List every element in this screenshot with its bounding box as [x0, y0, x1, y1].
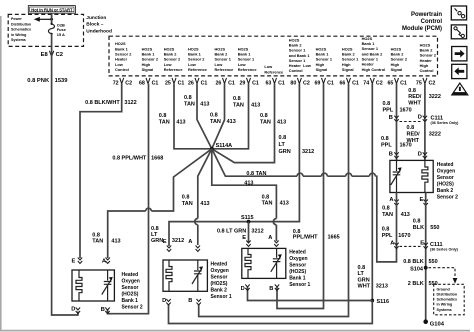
PCM column 8 text [289, 37, 312, 73]
sensor element right [102, 270, 113, 301]
hop over 1668 wire [146, 208, 152, 211]
svg-text:B: B [101, 307, 105, 313]
svg-text:LT: LT [151, 232, 158, 238]
svg-text:0.8: 0.8 [92, 232, 100, 238]
wire TAN S114A to bank1sensor1 A [212, 149, 277, 241]
PCM column 12 text [391, 46, 408, 72]
svg-text:TAN: TAN [92, 239, 103, 245]
svg-text:3212: 3212 [251, 228, 263, 234]
svg-text:C2: C2 [125, 80, 132, 86]
svg-text:3212: 3212 [172, 238, 184, 244]
fuse O2B 15A [48, 22, 66, 37]
heater element left [245, 248, 251, 278]
svg-text:3213: 3213 [376, 284, 388, 290]
wire 0.8 PPL 1666 from pin 66 to middle sensor B [199, 84, 349, 317]
label 0.8 PPL 1670 sensor A lower [382, 227, 411, 240]
pin 66 C1 [339, 78, 358, 87]
svg-text:A: A [390, 240, 394, 246]
wire sensor A down to C111 lower [396, 193, 398, 249]
svg-text:Heated: Heated [289, 249, 306, 255]
PCM dashed box [109, 36, 438, 76]
heater element left [76, 270, 82, 301]
label 2 BLK 550 [408, 281, 438, 287]
label 0.8 BLK 550 below C111 [403, 259, 437, 265]
svg-text:413: 413 [251, 103, 260, 109]
svg-text:Heated: Heated [437, 162, 454, 168]
wire from hot feed to fuse [51, 13, 53, 23]
svg-text:GRN: GRN [279, 149, 291, 155]
connector C111 upper: pin B [389, 115, 399, 122]
svg-text:29: 29 [239, 80, 245, 86]
svg-text:D: D [241, 286, 245, 292]
svg-text:0.8 TAN: 0.8 TAN [246, 171, 266, 177]
label Heated Oxygen Sensor (HO2S) Bank 1 Sensor 1 [289, 249, 310, 288]
svg-text:Systems: Systems [437, 308, 452, 312]
svg-text:TAN: TAN [260, 120, 271, 126]
connector C111 upper dashed line and label [400, 115, 460, 125]
svg-text:0.8: 0.8 [262, 194, 270, 200]
label 0.8 PPL 1670 pin65 [383, 101, 412, 114]
PCM column 7 text [264, 64, 284, 74]
label 0.8 PPL/WHT 1668 [112, 156, 163, 162]
svg-text:3122: 3122 [124, 100, 136, 106]
svg-text:Sensor 2: Sensor 2 [437, 194, 458, 200]
S104 dashed branch to ground distribution [429, 268, 458, 284]
pin A top right [188, 239, 200, 252]
svg-text:Heated: Heated [211, 261, 228, 267]
sensor element right [271, 248, 282, 278]
svg-text:RED/: RED/ [408, 94, 422, 100]
svg-text:D: D [71, 306, 75, 312]
svg-text:(36 Series Only): (36 Series Only) [431, 121, 460, 125]
svg-text:TAN: TAN [159, 120, 170, 126]
svg-text:0.8: 0.8 [382, 227, 390, 233]
pin 63 C1 [265, 78, 284, 87]
junction block underhood dashed box [8, 14, 83, 46]
label 0.8 LT GRN 3212 at middle sensor E [151, 226, 184, 244]
sensor element right [192, 260, 203, 291]
svg-text:66: 66 [339, 80, 345, 86]
pin A top right [268, 235, 278, 246]
label 0.8 TAN 413 horizontal [244, 171, 266, 187]
ground distribution note text [437, 287, 458, 311]
svg-text:E: E [163, 239, 167, 245]
wire 0.8 PPL 1670 pin 65 to C111 [396, 84, 398, 122]
svg-text:3222: 3222 [429, 94, 441, 100]
pin B bottom right [101, 307, 110, 313]
label Powertrain Control Module (PCM) [402, 12, 442, 32]
PCM column 11 text [362, 36, 386, 72]
svg-text:Sensor 2: Sensor 2 [122, 304, 143, 310]
label 0.8 TAN 413 pin25 [159, 113, 186, 126]
svg-text:Underhood: Underhood [86, 28, 112, 34]
wire TAN from pin 29 to S114A [212, 84, 249, 149]
label 0.8 TAN 413 pin29 [233, 96, 260, 109]
PCM column 4 text [188, 46, 208, 72]
svg-text:C2: C2 [376, 80, 383, 86]
PCM column 10 text [342, 46, 359, 72]
label Heated Oxygen Sensor (HO2S) Bank 1 Sensor 2 [122, 272, 143, 311]
svg-text:Control: Control [115, 67, 129, 72]
svg-text:0.8: 0.8 [407, 125, 415, 131]
svg-text:Reference: Reference [238, 67, 258, 72]
page edge shading bottom [0, 330, 470, 332]
svg-text:PPL: PPL [381, 143, 392, 149]
svg-text:25: 25 [165, 80, 171, 86]
svg-text:TAN: TAN [182, 201, 193, 207]
svg-text:GRN: GRN [358, 277, 370, 283]
wire TAN S114A to middle sensor A [198, 149, 212, 245]
wire TAN from pin 63 to S114A [212, 84, 275, 163]
splice S115 [241, 215, 254, 223]
pin 25 C1 [165, 78, 184, 87]
icon key 2 [451, 25, 466, 39]
label 0.8 RED/WHT 3222 pin75 [408, 88, 441, 107]
pin D bottom left [162, 298, 171, 305]
svg-text:E: E [72, 258, 76, 264]
svg-text:Distribution: Distribution [11, 22, 31, 26]
svg-text:80: 80 [290, 80, 296, 86]
svg-text:413: 413 [111, 239, 120, 245]
svg-text:413: 413 [200, 201, 209, 207]
sensor box bank1 sensor1 [242, 248, 286, 278]
pin 80 C2 [290, 78, 309, 87]
sensor box bank2 sensor1 [163, 260, 207, 291]
svg-text:(HO2S): (HO2S) [211, 281, 228, 287]
svg-text:Reference: Reference [164, 67, 184, 72]
PCM column 3 text [164, 46, 184, 72]
svg-text:B: B [188, 298, 192, 304]
wire sensor E down to ground [425, 193, 427, 322]
svg-text:(HO2S): (HO2S) [437, 181, 454, 187]
svg-text:413: 413 [244, 181, 253, 187]
wire TAN from pin 26 second to S114A [212, 84, 225, 149]
label 0.8 PNK 1539 [27, 78, 68, 84]
label 0.8 PPL 1670 below C111 [381, 136, 412, 149]
splice S104 [410, 266, 427, 272]
svg-text:0.8: 0.8 [381, 136, 389, 142]
svg-text:0.8: 0.8 [408, 88, 416, 94]
svg-text:0.8 PNK: 0.8 PNK [27, 78, 50, 84]
svg-text:S115: S115 [241, 215, 254, 221]
pin 65 C1 [387, 78, 406, 87]
pin 75 C2 [416, 78, 435, 87]
pin A below box [389, 197, 398, 206]
svg-text:0.8: 0.8 [182, 195, 190, 201]
wire RED/WHT C111 to sensor D [424, 122, 426, 161]
svg-text:Module (PCM): Module (PCM) [402, 26, 442, 32]
label 0.8 LT GRN 3212 pin80 [279, 135, 315, 155]
page edge shading left [0, 16, 2, 331]
wire 0.8 PPL/WHT 1668 from pin 68 to sensor B [108, 84, 149, 314]
svg-text:C1: C1 [400, 80, 407, 86]
label 0.8 TAN 413 pin63 [260, 113, 286, 126]
svg-text:BLK: BLK [413, 225, 424, 231]
svg-text:0.8 BLK: 0.8 BLK [403, 259, 424, 265]
svg-text:Bank 2: Bank 2 [211, 287, 228, 293]
svg-text:0.8: 0.8 [358, 265, 366, 271]
svg-text:69: 69 [314, 80, 320, 86]
svg-text:TAN: TAN [233, 103, 244, 109]
svg-text:C1: C1 [178, 80, 185, 86]
wire TAN S114A to right sensor A via C111 [212, 149, 397, 262]
svg-text:C2: C2 [56, 52, 63, 58]
pin 26 C1 second [215, 78, 234, 87]
svg-text:in Wiring: in Wiring [437, 303, 453, 307]
svg-text:Reference: Reference [188, 67, 208, 72]
svg-text:Oxygen: Oxygen [437, 168, 455, 174]
label 0.8 TAN 413 pin26b [210, 112, 236, 125]
wire PPL C111 to sensor B [396, 122, 398, 161]
pin 69 C1 [314, 78, 333, 87]
svg-text:C1: C1 [327, 80, 334, 86]
svg-text:0.8: 0.8 [382, 206, 390, 212]
svg-text:TAN: TAN [210, 119, 221, 125]
connector C111 upper: pin D [418, 114, 427, 121]
svg-text:Junction: Junction [86, 15, 106, 21]
label 0.8 TAN 413 pin26a [184, 95, 209, 108]
wire S116 to bank1sensor1 D [248, 287, 373, 301]
svg-text:550: 550 [430, 225, 439, 231]
wire S116 to middle sensor D [169, 301, 373, 324]
pin B bottom right [188, 298, 201, 305]
reference arrow to power distribution [34, 17, 53, 22]
svg-text:WHT: WHT [407, 138, 420, 144]
heater element right [422, 160, 428, 192]
svg-text:413: 413 [280, 201, 289, 207]
svg-text:S116: S116 [377, 299, 390, 305]
svg-text:Distribution: Distribution [437, 293, 458, 297]
hot in run or start box [28, 6, 75, 14]
hop over S115 line [273, 219, 276, 225]
svg-text:Schematics: Schematics [437, 298, 458, 302]
svg-text:Reference: Reference [264, 69, 284, 74]
pin D bottom left [71, 306, 80, 313]
svg-text:PPL: PPL [383, 108, 394, 114]
connector C111 lower: pin E [420, 240, 428, 248]
svg-text:(36 Series Only): (36 Series Only) [430, 248, 459, 252]
svg-text:413: 413 [227, 119, 236, 125]
svg-text:Power: Power [11, 17, 22, 21]
splice S116 [370, 299, 389, 305]
svg-text:2 BLK: 2 BLK [408, 281, 424, 287]
svg-text:26: 26 [215, 80, 221, 86]
svg-text:D: D [418, 151, 422, 157]
pin E top left [242, 235, 250, 246]
svg-text:C2: C2 [429, 80, 436, 86]
pin D bottom left [241, 285, 250, 293]
PCM column 5 text [215, 46, 235, 72]
svg-text:Heated: Heated [122, 272, 139, 278]
svg-text:LT: LT [358, 271, 365, 277]
svg-text:RED/: RED/ [407, 132, 421, 138]
svg-text:Reference: Reference [215, 67, 235, 72]
svg-text:C2: C2 [303, 80, 310, 86]
svg-text:S104: S104 [410, 266, 424, 272]
svg-text:Signal: Signal [342, 67, 354, 72]
pin 68 C1 [139, 78, 158, 87]
sensor box bank2 sensor2 [390, 160, 433, 192]
svg-text:413: 413 [401, 212, 410, 218]
svg-text:C1: C1 [252, 80, 259, 86]
label 0.8 TAN 413 bank1sensor1 A [262, 194, 289, 206]
svg-text:Oxygen: Oxygen [289, 256, 307, 262]
svg-text:E: E [242, 235, 246, 241]
wire LT GRN/WHT 3213 pin 74 to S116 [371, 84, 373, 301]
ground G104 [423, 319, 444, 327]
svg-text:C1: C1 [228, 80, 235, 86]
svg-text:B: B [389, 115, 393, 121]
svg-text:63: 63 [265, 80, 271, 86]
svg-text:413: 413 [176, 120, 185, 126]
svg-text:GRN: GRN [151, 238, 163, 244]
pin 72 C2 [113, 78, 132, 87]
wire TAN from pin 25 to S114A [174, 84, 212, 149]
svg-text:1670: 1670 [398, 233, 410, 239]
connector E8 C2 [41, 51, 63, 58]
svg-text:High Control: High Control [362, 67, 386, 72]
icon key 1 [451, 6, 466, 20]
icon caution triangle [452, 83, 468, 95]
wire 0.8 PNK 1539 down left side [52, 46, 78, 315]
svg-text:0.8: 0.8 [383, 101, 391, 107]
svg-text:1668: 1668 [151, 156, 163, 162]
svg-text:3222: 3222 [429, 132, 441, 138]
label 0.8 RED/WHT 3222 below C111 [407, 125, 441, 144]
svg-text:C1: C1 [278, 80, 285, 86]
svg-text:A: A [389, 197, 393, 203]
pin 26 C1 first [188, 78, 207, 87]
svg-text:E: E [420, 197, 424, 203]
svg-text:B: B [269, 286, 273, 292]
svg-text:0.8: 0.8 [159, 113, 167, 119]
wire TAN S114A to left sensor A [108, 149, 212, 258]
icon arrow left [452, 64, 467, 78]
svg-text:Hot In RUN or START: Hot In RUN or START [31, 7, 73, 12]
svg-text:Ground: Ground [437, 287, 451, 291]
svg-text:1665: 1665 [328, 234, 340, 240]
svg-text:0.8 LT GRN: 0.8 LT GRN [217, 228, 246, 234]
connector C111 lower: pin A [390, 240, 398, 248]
svg-text:26: 26 [188, 80, 194, 86]
sensor B letter above box [389, 151, 399, 158]
wire 0.8 BLK/WHT 3122 from pin 72 to sensor E [80, 84, 122, 258]
svg-text:0.8 BLK/WHT: 0.8 BLK/WHT [85, 100, 120, 106]
svg-text:Control: Control [289, 68, 303, 73]
svg-text:in Wiring: in Wiring [11, 33, 26, 37]
svg-text:Bank 2: Bank 2 [437, 188, 454, 194]
svg-text:0.8: 0.8 [210, 112, 218, 118]
wire S115 to bank1sensor1 E [248, 222, 250, 243]
svg-text:0.8: 0.8 [184, 95, 192, 101]
svg-text:Sensor 1: Sensor 1 [289, 282, 310, 288]
svg-text:Powertrain: Powertrain [411, 12, 442, 18]
pin A top right [102, 258, 110, 265]
wire LT GRN 3212 from pin 80 to S115 bus [169, 84, 299, 246]
hop over S115 line [195, 219, 198, 225]
sensor element left [391, 160, 402, 192]
PCM column 9 text [316, 46, 333, 72]
svg-text:0.8: 0.8 [260, 113, 268, 119]
svg-text:0.8: 0.8 [413, 219, 421, 225]
label Heated Oxygen Sensor (HO2S) Bank 2 Sensor 1 [211, 261, 232, 300]
svg-text:75: 75 [416, 80, 422, 86]
svg-text:C1: C1 [152, 80, 159, 86]
label 0.8 LT GRN WHT 3213 [358, 265, 388, 290]
svg-text:74: 74 [363, 80, 369, 86]
heater element left [166, 260, 172, 291]
svg-text:3212: 3212 [302, 149, 314, 155]
svg-text:TAN: TAN [382, 212, 393, 218]
svg-text:413: 413 [277, 120, 286, 126]
hops over four vertical wires [297, 173, 375, 176]
label Junction Block - Underhood [86, 15, 112, 35]
svg-text:413: 413 [200, 102, 209, 108]
svg-text:D: D [162, 298, 166, 304]
svg-text:0.8: 0.8 [233, 96, 241, 102]
svg-text:68: 68 [139, 80, 145, 86]
svg-text:Oxygen: Oxygen [211, 268, 229, 274]
label 0.8 TAN 413 middle A [182, 195, 210, 208]
wire 0.8 RED/WHT 3222 pin 75 to C111 [424, 84, 426, 122]
svg-text:S114A: S114A [216, 143, 233, 149]
svg-text:Block –: Block – [86, 22, 103, 28]
svg-text:G104: G104 [430, 321, 445, 327]
wire fuse to junction block edge [51, 34, 53, 47]
svg-text:Sensor: Sensor [122, 285, 139, 291]
svg-text:550: 550 [429, 259, 438, 265]
svg-text:1539: 1539 [55, 78, 69, 84]
PCM column 1 text [115, 41, 132, 72]
svg-text:TAN: TAN [184, 102, 195, 108]
svg-text:Bank 1: Bank 1 [289, 275, 306, 281]
svg-text:(HO2S): (HO2S) [122, 291, 139, 297]
sensor D letter above box [418, 151, 427, 158]
wire TAN from pin 26 first to S114A [197, 84, 212, 149]
svg-text:Sensor 1: Sensor 1 [211, 294, 232, 300]
svg-text:PPL: PPL [382, 233, 393, 239]
svg-text:Signal: Signal [316, 67, 328, 72]
svg-text:0.8 PPL/WHT: 0.8 PPL/WHT [112, 156, 147, 162]
label 0.8 LT GRN 3212 at S115 [217, 228, 264, 234]
svg-text:15 A: 15 A [57, 32, 65, 37]
svg-text:(HO2S): (HO2S) [289, 269, 306, 275]
svg-text:C1: C1 [352, 80, 359, 86]
svg-text:1670: 1670 [400, 108, 412, 114]
label Heated Oxygen Sensor (HO2S) Bank 2 Sensor 2 [437, 162, 458, 201]
svg-text:E8: E8 [41, 52, 49, 58]
svg-text:Bank 1: Bank 1 [122, 298, 139, 304]
svg-text:TAN: TAN [262, 201, 273, 207]
pin B bottom right [269, 285, 279, 293]
svg-text:Control: Control [421, 19, 443, 25]
svg-text:LT: LT [279, 142, 286, 148]
svg-text:Oxygen: Oxygen [122, 278, 140, 284]
label 0.8 BLK 550 sensor E [413, 219, 440, 232]
svg-text:Sensor: Sensor [437, 175, 454, 181]
label 0.8 BLK/WHT 3122 [85, 100, 136, 106]
svg-text:D: D [418, 114, 422, 120]
svg-text:Control: Control [420, 68, 434, 73]
connector C111 lower dashed line and label [400, 242, 459, 252]
svg-text:Schematics: Schematics [11, 28, 31, 32]
icon arrow right [452, 47, 467, 61]
pin 29 C1 [239, 78, 258, 87]
svg-text:WHT: WHT [408, 101, 421, 107]
svg-text:Sensor: Sensor [289, 262, 306, 268]
PCM column 2 text [142, 46, 159, 72]
svg-text:A: A [268, 235, 272, 241]
